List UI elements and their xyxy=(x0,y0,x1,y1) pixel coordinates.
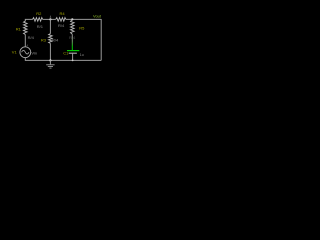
wire source to bottom xyxy=(24,58,26,61)
svg-text:R2: R2 xyxy=(36,11,42,16)
ground xyxy=(49,60,51,64)
wire R4 to top-right corner xyxy=(66,18,101,20)
resistor R2 xyxy=(33,18,43,22)
junction dot node B (top of R5) xyxy=(71,18,73,20)
junction dot bottom of C1 xyxy=(72,60,74,62)
wire bottom horizontal xyxy=(25,59,101,61)
wire between R2 and node A xyxy=(43,18,56,20)
capacitor C1 top lead (green) xyxy=(71,46,73,50)
resistor R3 xyxy=(49,34,53,44)
wire node A down to R3 xyxy=(49,19,51,33)
resistor R5 xyxy=(71,19,75,34)
svg-text:R1: R1 xyxy=(16,26,22,31)
resistor R1 xyxy=(24,21,28,35)
svg-text:V1: V1 xyxy=(12,49,18,54)
capacitor C1 bottom plate xyxy=(69,52,77,54)
svg-text:R/4: R/4 xyxy=(58,23,65,28)
svg-text:Vout: Vout xyxy=(93,14,102,19)
svg-text:R3: R3 xyxy=(41,37,47,42)
junction dot bottom of R3 xyxy=(49,59,51,61)
voltage source V1 (AC) xyxy=(20,47,31,58)
wire R5 to capacitor (grey fading to green) xyxy=(71,34,73,46)
wire R3 to bottom wire xyxy=(49,43,51,60)
wire right vertical (Vout branch down) xyxy=(100,19,102,60)
svg-text:+: + xyxy=(26,43,28,47)
wire top-left horizontal segment xyxy=(25,19,32,21)
svg-text:R/4: R/4 xyxy=(52,37,59,42)
svg-text:R4: R4 xyxy=(60,11,66,16)
svg-text:C1: C1 xyxy=(63,51,69,56)
capacitor C1 bottom lead xyxy=(72,53,74,60)
node A junction dot xyxy=(49,18,51,20)
svg-text:R/1: R/1 xyxy=(37,24,44,29)
resistor R4 xyxy=(56,18,66,22)
wire R1 to source xyxy=(24,35,26,47)
capacitor C1 top plate (green) xyxy=(67,50,79,52)
svg-text:1u: 1u xyxy=(80,53,84,57)
svg-text:R5: R5 xyxy=(79,26,85,31)
svg-text:Vin: Vin xyxy=(31,51,37,56)
node A marker (probe arrow above node) xyxy=(50,15,52,18)
svg-text:R/4: R/4 xyxy=(28,35,35,40)
